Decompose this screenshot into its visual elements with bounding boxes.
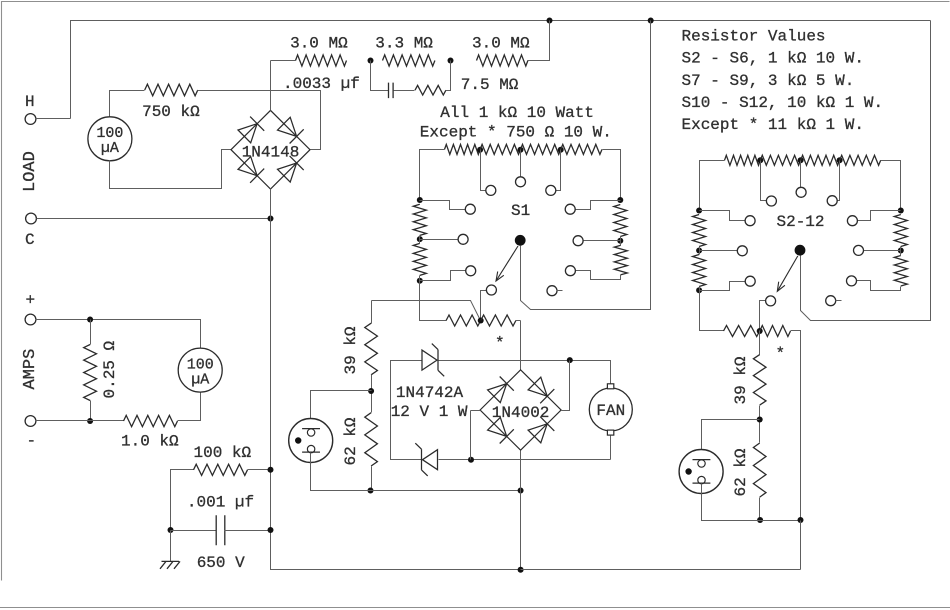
resistor S2 left col upper	[693, 215, 706, 247]
svg-text:1N4742A: 1N4742A	[396, 384, 464, 402]
resistor S1 chain seg3	[521, 144, 561, 154]
svg-text:.001 µf: .001 µf	[187, 494, 254, 512]
resistor S2 chain seg1	[725, 155, 761, 165]
svg-text:1N4002: 1N4002	[492, 404, 550, 422]
wire RC branch right	[446, 61, 451, 91]
svg-text:Except * 750 Ω 10 W.: Except * 750 Ω 10 W.	[420, 124, 612, 142]
wire S2 right col to contact 9	[857, 281, 901, 291]
svg-text:S10 - S12, 10 kΩ 1 W.: S10 - S12, 10 kΩ 1 W.	[682, 94, 884, 112]
resistor S1 left col lower	[413, 243, 426, 275]
terminal C	[26, 213, 37, 224]
node S1 chain tap3	[558, 147, 564, 153]
node divider tap A	[368, 58, 374, 64]
label 0.25 Ohm	[101, 340, 119, 398]
contact S1 pos3	[546, 185, 556, 195]
junction 62k right / rail	[757, 517, 763, 523]
wire S1 right col joins	[620, 237, 622, 246]
wire bottom rail right	[521, 569, 801, 571]
label star right	[776, 345, 786, 363]
note except 750	[420, 124, 612, 142]
node S1 right col mid	[617, 238, 623, 244]
node S2 right col top	[898, 208, 904, 214]
wire S1 left col to star chain	[420, 276, 447, 321]
wire bridge top to divider	[270, 61, 272, 111]
label .001 uf	[187, 494, 254, 512]
svg-text:3.0 MΩ: 3.0 MΩ	[290, 35, 348, 53]
note resistor values title	[682, 28, 826, 46]
node S1 star tap	[478, 318, 484, 324]
resistor S1 chain seg2	[480, 144, 520, 154]
label 39 kOhm right	[732, 356, 750, 404]
wire S2 contact5 stub	[858, 211, 901, 221]
wire xlr2 bottom to rail	[702, 484, 801, 521]
label 3.0 Mohm second	[472, 35, 530, 53]
junction top rail / divider chain	[547, 18, 553, 24]
junction top rail / S1 common	[648, 18, 654, 24]
node S2 chain tap2	[798, 157, 804, 163]
wire C to bridge bottom line	[37, 218, 271, 220]
svg-text:39 kΩ: 39 kΩ	[342, 326, 360, 374]
wire S1 contact2 stub	[481, 150, 486, 191]
capacitor .001 uf	[216, 515, 225, 545]
label 62 kOhm right	[732, 448, 750, 496]
contact S2 pos5	[847, 216, 857, 226]
label 7.5 Mohm	[461, 76, 519, 94]
wire S1 contact7 stub	[584, 240, 621, 242]
junction zener bottom / bridge2 left	[468, 457, 474, 463]
wire divider lead left	[271, 60, 296, 62]
wire S1 contact1 stub	[520, 150, 522, 177]
wire 100k left leg	[171, 470, 194, 531]
resistor 0.25 Ohm shunt	[84, 345, 97, 401]
svg-text:100 kΩ: 100 kΩ	[194, 444, 252, 462]
contact S1 pos2	[486, 185, 496, 195]
wire S1 left col joins	[419, 236, 421, 244]
wire S2 contact6 stub	[700, 250, 738, 252]
svg-text:.0033 µf: .0033 µf	[283, 75, 360, 93]
contact S1 pos6	[458, 234, 468, 244]
wire 39k top lead	[371, 301, 373, 324]
wire 62k right bottom lead	[759, 498, 761, 521]
wire bridge2 left drop	[470, 411, 472, 460]
resistor 100 kOhm	[194, 464, 248, 475]
wire zener pair left riser	[391, 361, 423, 460]
wire ground stem	[170, 531, 172, 562]
wire H to riser	[36, 118, 71, 120]
resistor S2 chain seg4	[840, 155, 881, 165]
wire S2 contact8 stub	[700, 282, 746, 291]
resistor 3.0 Mohm second	[477, 55, 528, 66]
wire xlr2 top feed	[702, 420, 760, 460]
wire S2 star right bend	[791, 331, 801, 521]
resistor S1 left col upper	[413, 204, 426, 235]
resistor S1 chain seg1	[445, 144, 481, 154]
svg-text:7.5 MΩ: 7.5 MΩ	[461, 76, 519, 94]
capacitor .0033 uf	[389, 83, 394, 99]
svg-text:S1: S1	[511, 202, 530, 220]
note S2-S6	[682, 50, 864, 68]
meter M1 100uA	[88, 117, 132, 161]
node S2 star tap	[757, 328, 763, 334]
node S2 left col top	[696, 208, 702, 214]
wire S1 chain left bend	[420, 150, 445, 201]
wire S2 contact4 stub	[700, 211, 746, 221]
wire S1 star right bend	[516, 320, 521, 322]
resistor S2 right col lower	[894, 256, 907, 287]
diode bridge 1N4148 label	[242, 144, 300, 162]
svg-text:Resistor Values: Resistor Values	[682, 28, 826, 46]
wire S1 right col to contact 9	[576, 271, 621, 280]
svg-text:3.3 MΩ: 3.3 MΩ	[375, 35, 433, 53]
wire S2 contact7 stub	[864, 250, 901, 252]
svg-text:750 kΩ: 750 kΩ	[142, 103, 200, 121]
wire bridge2 right lead	[562, 361, 570, 411]
label C	[25, 231, 35, 249]
contact S2 pos2	[766, 196, 776, 206]
resistor S2 left col lower	[693, 255, 706, 287]
wire 39k right bottom lead	[759, 406, 761, 443]
wire S2 contact3 stub	[838, 161, 840, 201]
svg-text:*: *	[776, 345, 786, 363]
wire zener bottom row	[439, 459, 611, 461]
wire S1 contact8 stub	[420, 271, 466, 281]
resistor 3.3 Mohm	[383, 55, 435, 66]
junction bridge2 / bottom rail	[518, 567, 524, 573]
wire 39k bottom lead	[371, 375, 373, 413]
connector XLR J1	[289, 419, 333, 463]
resistor S2 star seg2 11k	[760, 326, 791, 337]
wire S2 left col joins	[699, 247, 701, 255]
resistor 1.0 kOhm	[124, 415, 178, 426]
svg-text:FAN: FAN	[596, 402, 625, 420]
label star left	[495, 335, 505, 353]
node S2-12 wiper hub	[795, 245, 806, 256]
wiper arrow S2-12	[777, 256, 798, 291]
junction 100k / bridge line	[268, 467, 274, 473]
svg-text:µA: µA	[191, 371, 209, 388]
svg-text:LOAD: LOAD	[21, 151, 40, 192]
contact S1 pos1	[516, 177, 526, 187]
wire cap to 7.5M	[394, 90, 415, 92]
junction ground node	[168, 527, 174, 533]
wire S1 common to top rail	[521, 21, 651, 310]
connector XLR J2	[679, 450, 723, 494]
terminal H	[25, 114, 36, 125]
wire S2 contact2 stub	[761, 161, 767, 201]
svg-text:0.25 Ω: 0.25 Ω	[101, 340, 119, 398]
resistor 62 kOhm right	[753, 443, 766, 497]
wire xlr1 bottom pin to rail	[311, 453, 521, 491]
wire S2 contact1 stub	[800, 161, 802, 188]
node S2 left col bottom	[696, 287, 702, 293]
svg-text:+: +	[26, 292, 36, 310]
wire bridge bottom vertical	[271, 189, 521, 570]
wire S1 contact4 stub	[420, 201, 466, 210]
contact S2 pos3	[827, 196, 837, 206]
svg-text:µA: µA	[101, 140, 119, 157]
wire - terminal	[36, 420, 124, 422]
svg-text:S2 - S6, 1 kΩ 10 W.: S2 - S6, 1 kΩ 10 W.	[682, 50, 864, 68]
wiper arrow S1	[496, 246, 518, 281]
junction 39k/62k right	[757, 417, 763, 423]
contact S2 pos9	[847, 276, 857, 286]
note except 11k	[682, 116, 864, 134]
resistor 62 kOhm left	[365, 413, 378, 466]
node S1 chain tap1	[477, 147, 483, 153]
wire 62k bottom lead	[371, 467, 373, 491]
node divider tap B	[448, 58, 454, 64]
label S2-12	[777, 213, 825, 231]
resistor S1 chain seg4	[561, 144, 602, 154]
wire 750k to bridge right	[198, 91, 321, 150]
resistor S2 right col upper	[894, 215, 907, 247]
label LOAD	[21, 151, 40, 192]
wire S1 contact6 stub	[420, 239, 459, 241]
junction cap / bridge line	[268, 527, 274, 533]
resistor 750 kOhm	[145, 84, 198, 96]
junction C / bridge bottom line	[268, 216, 274, 222]
wire S2 left col to star chain	[700, 287, 724, 331]
svg-text:Except * 11 kΩ 1 W.: Except * 11 kΩ 1 W.	[682, 116, 864, 134]
svg-text:All 1 kΩ 10 Watt: All 1 kΩ 10 Watt	[440, 104, 594, 122]
contact S1 pos7	[573, 236, 583, 246]
label 1N4742A	[396, 384, 464, 402]
node S2 right col mid	[898, 248, 904, 254]
svg-text:62 kΩ: 62 kΩ	[342, 417, 360, 465]
node S1 left col bottom	[417, 278, 423, 284]
junction rail / S2 star drop	[798, 517, 804, 523]
wire star chain to bridge2 top	[520, 321, 522, 370]
contact S2 pos7	[854, 245, 864, 255]
wire cap left lead	[171, 530, 217, 532]
svg-text:-: -	[27, 432, 37, 450]
note all 1k	[440, 104, 594, 122]
resistor S1 star seg1 750	[446, 315, 481, 326]
zener diode 1N4742A top	[422, 344, 444, 377]
wire + to meter M2 top	[36, 320, 201, 349]
junction 39k/62k left	[368, 388, 374, 394]
label 12V 1W	[391, 403, 468, 421]
contact S1 pos4	[465, 204, 475, 214]
svg-text:39 kΩ: 39 kΩ	[732, 356, 750, 404]
node S2 chain tap1	[757, 157, 763, 163]
diode bridge 1N4002	[480, 370, 561, 450]
resistor 39 kOhm left	[365, 323, 378, 375]
svg-text:H: H	[25, 93, 35, 111]
wire 100k right lead	[248, 469, 271, 471]
label 39 kOhm left	[342, 326, 360, 374]
resistor 7.5 Mohm	[415, 85, 446, 95]
wire S2 common to top rail	[801, 21, 931, 321]
label 3.3 Mohm	[375, 35, 433, 53]
junction xlr rail / bridge2	[518, 488, 524, 494]
wire S2 contact10 stub	[760, 301, 766, 331]
wire meter M1 bottom to bridge left	[110, 150, 231, 189]
wire S1 contact11 stub	[557, 290, 563, 292]
svg-text:62 kΩ: 62 kΩ	[732, 448, 750, 496]
label 650 V	[197, 554, 245, 572]
resistor S2 chain seg3	[801, 155, 840, 165]
wire shunt bottom lead	[90, 401, 92, 421]
resistor S2 chain seg2	[760, 155, 800, 165]
wire S1 contact5 stub	[576, 201, 621, 210]
terminal AMPS -	[25, 416, 36, 427]
resistor 3.0 Mohm first	[296, 55, 347, 66]
contact S1 pos8	[466, 266, 476, 276]
wire S1 chain right bend	[603, 150, 621, 201]
wire divider to top rail	[528, 21, 550, 61]
node S2 chain tap3	[837, 157, 843, 163]
label S1	[511, 202, 530, 220]
wire bridge2 bottom drop	[520, 451, 522, 570]
svg-text:1N4148: 1N4148	[242, 144, 300, 162]
diode bridge 1N4002 label	[492, 404, 550, 422]
svg-text:1.0 kΩ: 1.0 kΩ	[121, 433, 179, 451]
node S1 wiper hub	[515, 235, 526, 246]
contact S1 pos9	[565, 266, 575, 276]
junction - / shunt	[87, 418, 93, 424]
note S10-S12	[682, 94, 884, 112]
contact S2 pos8	[745, 276, 755, 286]
label 750 kOhm	[142, 103, 200, 121]
resistor S1 star seg2 750	[481, 315, 516, 326]
node S1 chain tap2	[518, 147, 524, 153]
wire S1 contact10 stub	[481, 291, 487, 321]
wire cap right lead	[225, 530, 271, 532]
junction zener line / bridge2 right	[567, 357, 573, 363]
wire S1 contact3 stub	[556, 150, 561, 191]
wire bridge2 left lead	[471, 410, 481, 412]
resistor 39 kOhm right	[753, 355, 766, 406]
note S7-S9	[682, 72, 855, 90]
meter M2 100uA	[178, 348, 222, 392]
wire tap to star chain	[372, 301, 481, 321]
wire RC branch left	[371, 61, 389, 91]
svg-text:S7 - S9, 3 kΩ 5 W.: S7 - S9, 3 kΩ 5 W.	[682, 72, 855, 90]
svg-text:3.0 MΩ: 3.0 MΩ	[472, 35, 530, 53]
svg-text:S2-12: S2-12	[777, 213, 825, 231]
wire 1.0k to meter M2 bottom	[178, 393, 201, 421]
contact S1 pos10	[486, 285, 496, 295]
junction 62k / xlr rail left	[368, 488, 374, 494]
fan motor FAN	[589, 384, 632, 435]
contact S2 pos1	[796, 187, 806, 197]
wire S2 right col joins	[900, 247, 902, 256]
label plus	[26, 292, 36, 310]
ground	[160, 561, 180, 568]
resistor S2 star seg1 11k	[724, 326, 760, 337]
wire zener top to fan top	[439, 361, 611, 385]
label 3.0 Mohm first	[290, 35, 348, 53]
wire S2 chain right bend	[881, 161, 901, 211]
contact S2 pos4	[745, 216, 755, 226]
node S2 left col mid	[696, 248, 702, 254]
wire right rail drop to bottom rail	[800, 521, 802, 570]
contact S1 pos5	[565, 204, 575, 214]
resistor S1 right col upper	[614, 205, 627, 237]
label .0033 uf	[283, 75, 360, 93]
wire shunt top lead	[90, 320, 92, 345]
wire fan bottom	[610, 436, 612, 460]
label 62 kOhm left	[342, 417, 360, 465]
junction + / shunt	[87, 317, 93, 323]
contact S2 pos11	[826, 296, 836, 306]
label 1.0 kOhm	[121, 433, 179, 451]
resistor S1 right col lower	[614, 245, 627, 274]
wire S2 chain left bend	[700, 161, 725, 211]
label 100 kOhm	[194, 444, 252, 462]
svg-text:AMPS: AMPS	[21, 349, 40, 390]
wire top rail H to S2-12 common	[71, 21, 931, 119]
contact S2 pos10	[766, 296, 776, 306]
label minus	[27, 432, 37, 450]
contact S1 pos11	[547, 286, 557, 296]
wire S2 contact11 stub	[836, 300, 842, 302]
label H	[25, 93, 35, 111]
node S1 left col top	[417, 197, 423, 203]
wire 39k right top lead	[759, 331, 761, 355]
contact S2 pos6	[737, 246, 747, 256]
svg-text:650 V: 650 V	[197, 554, 245, 572]
diode bridge 1N4148	[231, 110, 310, 189]
svg-text:12 V 1 W: 12 V 1 W	[391, 403, 468, 421]
terminal AMPS +	[25, 314, 36, 325]
wire meter M1 top	[110, 91, 145, 117]
node S1 left col mid	[417, 236, 423, 242]
zener diode 1N4742A bottom	[415, 443, 437, 476]
svg-text:C: C	[25, 231, 35, 249]
wire xlr1 top pin	[311, 391, 372, 429]
label AMPS	[21, 349, 40, 390]
node S1 right col top	[617, 197, 623, 203]
svg-text:*: *	[495, 335, 505, 353]
